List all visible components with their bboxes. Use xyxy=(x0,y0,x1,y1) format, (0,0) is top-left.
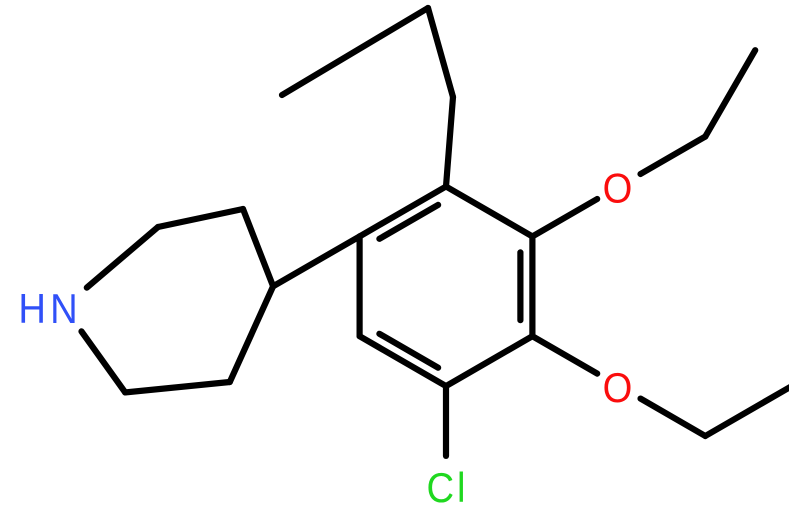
wire: bond C6-C4' (aryl to piperidine) xyxy=(273,236,360,286)
wire: benzene edge C4-C5 (to bottom-left) xyxy=(360,336,446,386)
wire: bond CH2-CH3 (upper ethyl tip) xyxy=(705,50,755,136)
wire: piperidine bond C2'-N1' xyxy=(82,331,126,392)
wire: benzene edge C6-C1 (to top) xyxy=(360,187,446,237)
wire: bond CH2-CH3 (lower ethyl tip) xyxy=(705,386,789,436)
wire: bond O2-CH2 (lower ethyl) xyxy=(641,399,706,436)
wire: benzene edge C5-C6 (left vertical) xyxy=(357,236,363,336)
wire: bond C2-O1 xyxy=(532,199,597,236)
wire: aromatic inner double-bond line C2-C3 xyxy=(517,252,523,320)
wire: bond apex carbon descending left xyxy=(282,8,428,95)
wire: bond C1 to apex base xyxy=(446,97,453,187)
wire: piperidine bond N1'-C6' xyxy=(87,227,158,288)
wire: bond C4-Cl xyxy=(443,386,449,456)
wire: bond O1-CH2 (upper ethyl) xyxy=(641,137,706,174)
wire: benzene edge C1-C2 (top to top-right) xyxy=(446,187,532,237)
svg-text:Cl: Cl xyxy=(427,464,469,511)
wire: bond at C1 rising to apex carbon xyxy=(428,8,453,97)
wire: piperidine bond C4'-C3' xyxy=(230,286,273,382)
svg-text:HN: HN xyxy=(18,285,81,332)
wire: benzene edge C3-C4 (to bottom) xyxy=(446,336,532,386)
wire: piperidine bond C5'-C4' xyxy=(243,209,273,286)
wire: bond C3-O2 xyxy=(532,336,597,373)
wire: piperidine bond C6'-C5' xyxy=(158,209,243,227)
wire: benzene edge C2-C3 (right vertical) xyxy=(529,236,535,336)
svg-text:O: O xyxy=(603,165,633,212)
wire: aromatic inner double-bond line C6-C1 xyxy=(379,205,438,239)
wire: piperidine bond C3'-C2' xyxy=(125,382,230,392)
wire: aromatic inner double-bond line C4-C5 xyxy=(379,334,438,368)
svg-text:O: O xyxy=(603,364,633,411)
